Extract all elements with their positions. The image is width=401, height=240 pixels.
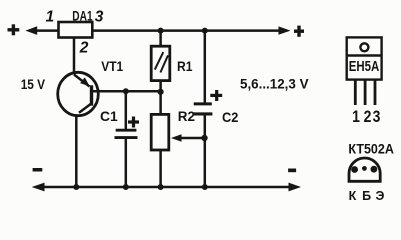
wire top rail DA1 pin3 to output	[92, 29, 281, 32]
svg-text:Б: Б	[362, 189, 371, 203]
svg-text:КТ502А: КТ502А	[348, 141, 394, 157]
svg-text:К: К	[349, 189, 357, 203]
resistor R1	[151, 31, 170, 92]
wire bottom rail	[40, 186, 290, 189]
pin label 1	[46, 9, 55, 26]
transistor VT1	[58, 72, 99, 115]
wire input positive with left arrow	[25, 26, 58, 35]
wire DA1 pin 2 down to VT1 emitter	[73, 38, 76, 75]
label C1	[100, 109, 118, 124]
svg-text:3: 3	[95, 8, 104, 25]
node junction C2 bottom	[202, 184, 208, 190]
pin label 2	[79, 39, 89, 56]
label EH5A	[349, 59, 380, 75]
pin label 3	[95, 8, 104, 25]
label + output	[294, 26, 304, 37]
pin labels 1 2 3	[352, 108, 380, 126]
label + input	[8, 24, 20, 35]
svg-text:EH5A: EH5A	[349, 59, 380, 75]
svg-text:C2: C2	[222, 110, 238, 125]
capacitor C2	[193, 31, 213, 187]
package EH5A legs	[355, 80, 375, 105]
label + C2	[210, 90, 222, 101]
label 5,6...12,3 V output voltage	[240, 76, 309, 92]
svg-text:R2: R2	[178, 109, 195, 124]
wire VT1 collector to bottom rail	[75, 114, 78, 187]
wire R2 wiper arrow to C2 line	[171, 134, 205, 142]
wire output positive arrow	[279, 26, 291, 34]
svg-text:Э: Э	[375, 189, 384, 203]
svg-text:2: 2	[79, 39, 89, 56]
label - output	[288, 169, 296, 173]
node junction C1 top	[123, 88, 129, 94]
svg-text:C1: C1	[100, 109, 118, 124]
label 15 V	[21, 76, 46, 92]
node junction R1 top	[158, 28, 164, 34]
svg-text:DA1: DA1	[72, 9, 93, 24]
svg-text:1: 1	[46, 9, 55, 26]
label R1	[177, 58, 193, 74]
label KT502A	[348, 141, 394, 157]
regulator DA1	[59, 22, 93, 38]
pin labels K B E	[349, 189, 385, 203]
svg-text:5,6...12,3 V: 5,6...12,3 V	[240, 76, 309, 92]
wire VT1 base to divider node	[93, 90, 161, 93]
svg-text:3: 3	[373, 108, 381, 126]
node junction R1 R2 base	[158, 89, 164, 95]
svg-text:VT1: VT1	[101, 59, 123, 74]
node junction VT1 collector bottom	[73, 184, 79, 190]
wire output negative arrow	[289, 183, 302, 192]
wire input negative arrow	[32, 183, 45, 192]
package KT502A pinout	[349, 158, 380, 181]
node junction C1 bottom	[123, 184, 129, 190]
svg-text:2: 2	[364, 108, 372, 126]
package EH5A outline	[347, 37, 382, 79]
node junction R2 bottom	[158, 184, 164, 190]
svg-text:R1: R1	[177, 58, 193, 74]
svg-text:1: 1	[352, 108, 360, 126]
label C2	[222, 110, 238, 125]
label R2	[178, 109, 195, 124]
node junction C2 top	[202, 28, 208, 34]
svg-text:15 V: 15 V	[21, 76, 46, 92]
node junction wiper C2	[201, 135, 207, 141]
label + C1	[128, 117, 139, 128]
label DA1	[72, 9, 93, 24]
label VT1	[101, 59, 123, 74]
capacitor C1	[115, 91, 138, 187]
label - input	[33, 168, 43, 172]
resistor R2 variable	[151, 91, 169, 187]
